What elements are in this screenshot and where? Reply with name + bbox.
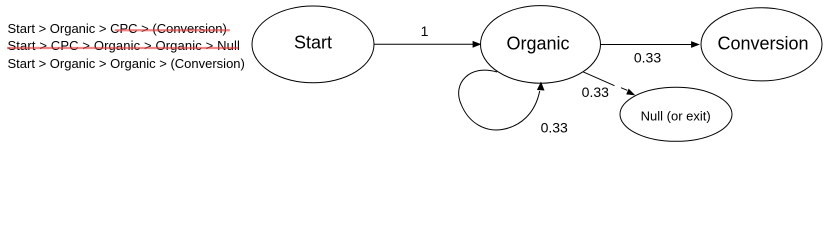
edge Organic to Conversion wire <box>600 44 691 46</box>
edge Organic self-loop wire <box>459 70 540 130</box>
edge Organic to Conversion arrowhead <box>691 41 700 48</box>
node Null ellipse <box>620 87 732 141</box>
node Organic ellipse <box>481 6 601 84</box>
strikethrough line 2 full <box>7 47 239 49</box>
node Start ellipse <box>252 6 374 83</box>
strikethrough line 1 partial <box>115 29 230 31</box>
edge Start to Organic wire <box>374 43 473 45</box>
edge Start to Organic arrowhead <box>473 41 482 48</box>
svg-text:Conversion: Conversion <box>717 33 808 53</box>
svg-text:Null (or exit): Null (or exit) <box>641 109 711 124</box>
edge Organic to Null wire segment <box>583 72 615 86</box>
svg-text:Organic: Organic <box>506 33 569 53</box>
edge Organic self-loop arrowhead <box>537 82 545 91</box>
svg-text:Start > Organic > Organic > (C: Start > Organic > Organic > (Conversion) <box>8 56 245 71</box>
svg-text:Start: Start <box>294 33 332 53</box>
svg-text:Start > Organic > CPC > (Conve: Start > Organic > CPC > (Conversion) <box>8 21 227 36</box>
svg-text:1: 1 <box>421 23 429 39</box>
svg-text:Start > CPC > Organic > Organi: Start > CPC > Organic > Organic > Null <box>8 38 241 53</box>
svg-text:0.33: 0.33 <box>541 120 568 136</box>
node Conversion ellipse <box>701 8 822 81</box>
edge Organic to Null arrowhead <box>626 89 635 96</box>
svg-text:0.33: 0.33 <box>634 49 661 65</box>
edge Organic to Null arrowhead tail <box>621 88 627 91</box>
svg-text:0.33: 0.33 <box>582 84 609 100</box>
